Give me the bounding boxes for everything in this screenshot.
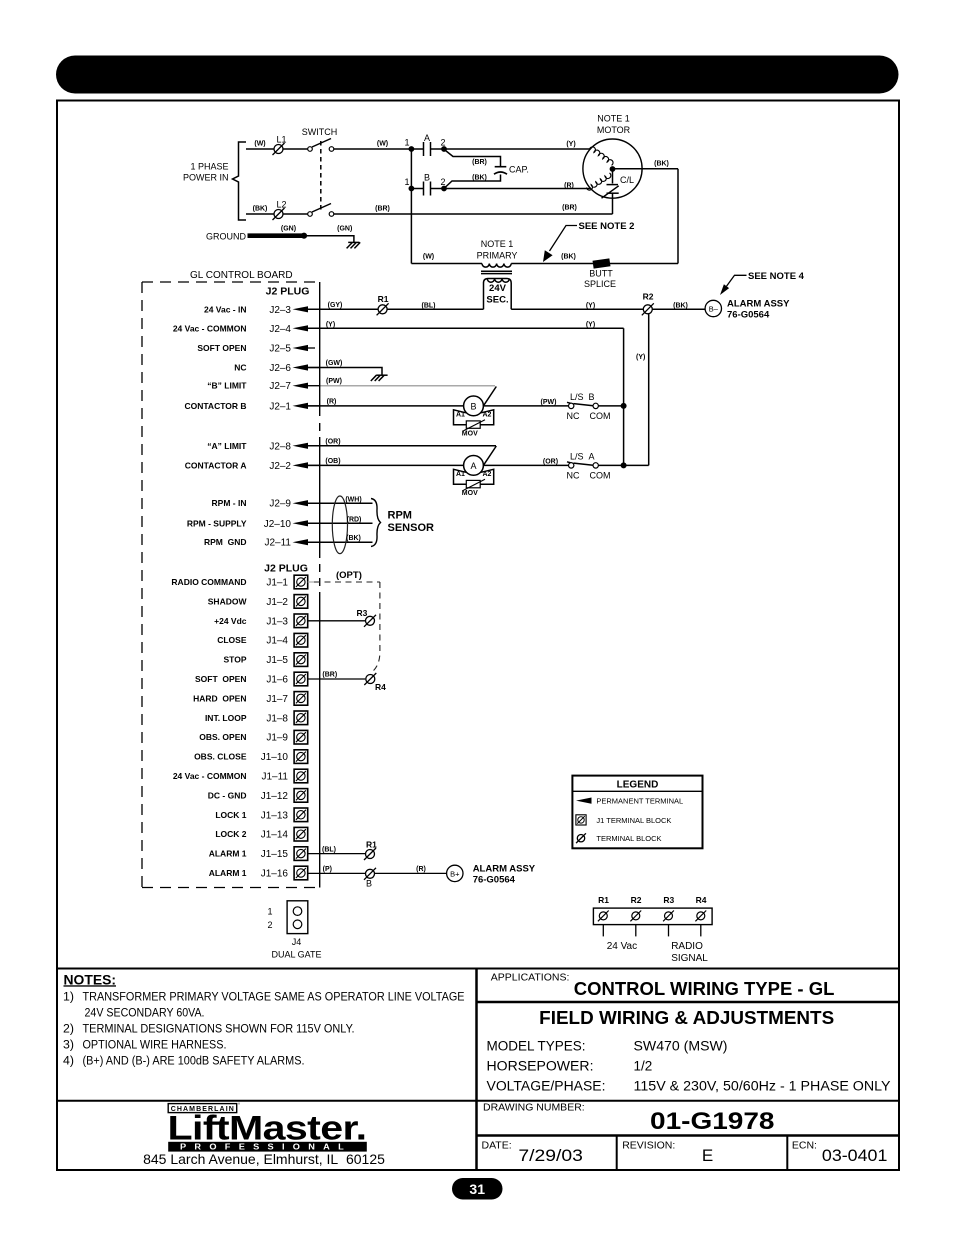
svg-text:R4: R4 <box>375 682 386 692</box>
svg-text:+24 Vdc: +24 Vdc <box>214 616 247 626</box>
RPM cable ellipse <box>332 496 347 554</box>
motor center node <box>610 166 616 172</box>
wire J2-7 PW gray <box>308 385 495 387</box>
svg-text:TERMINAL DESIGNATIONS SHOWN FO: TERMINAL DESIGNATIONS SHOWN FOR 115V ONL… <box>83 1021 355 1035</box>
outer page frame <box>57 101 899 1171</box>
svg-text:VOLTAGE/PHASE:: VOLTAGE/PHASE: <box>487 1078 606 1093</box>
svg-text:J2–5: J2–5 <box>269 344 291 355</box>
svg-text:J1–2: J1–2 <box>266 597 288 608</box>
svg-text:(BL): (BL) <box>322 846 336 853</box>
svg-text:R1: R1 <box>366 840 377 850</box>
svg-text:POWER IN: POWER IN <box>183 173 229 183</box>
wire J2-3 to R1 <box>304 308 378 310</box>
terminal R2 top <box>642 303 654 315</box>
svg-text:A: A <box>470 461 476 471</box>
svg-text:R4: R4 <box>696 895 707 905</box>
svg-text:BUTT: BUTT <box>589 269 613 279</box>
strip terminal R2 <box>630 911 641 922</box>
ground symbol hatches <box>348 241 359 243</box>
svg-text:(OB): (OB) <box>325 458 340 465</box>
svg-text:INT. LOOP: INT. LOOP <box>205 713 247 723</box>
svg-text:A2: A2 <box>483 411 492 418</box>
svg-text:J2–7: J2–7 <box>269 381 291 392</box>
svg-text:(Y): (Y) <box>586 303 595 310</box>
capacitor CAP top plate <box>495 166 507 168</box>
leader see note 4 <box>727 275 747 286</box>
svg-text:PERMANENT TERMINAL: PERMANENT TERMINAL <box>596 796 683 805</box>
line above DATE row <box>477 1134 900 1137</box>
wire Y vertical to limit rows <box>623 328 625 465</box>
wire R1 to transformer <box>387 308 483 310</box>
svg-text:L/S A: L/S A <box>570 452 595 462</box>
J4 pin 2 circle <box>293 920 302 929</box>
alarm assy B- circle <box>705 300 721 316</box>
wire W bottom run to primary and butt splice <box>411 263 482 265</box>
ground symbol J2-6 <box>376 374 387 376</box>
wire L/S B COM to junction <box>598 405 623 407</box>
strip lead R4 <box>700 925 702 937</box>
wire: frame line top of notes box <box>57 968 899 970</box>
contactor B actuator diagonal <box>483 387 496 407</box>
svg-text:TERMINAL BLOCK: TERMINAL BLOCK <box>596 834 661 843</box>
svg-text:(OPT): (OPT) <box>336 570 362 581</box>
svg-text:(BR): (BR) <box>322 672 337 679</box>
wire ground thin lead <box>304 236 354 243</box>
wire Y node2A to motor <box>444 148 590 150</box>
svg-text:24 Vac - COMMON: 24 Vac - COMMON <box>173 771 247 781</box>
svg-text:(BK): (BK) <box>346 535 361 542</box>
svg-text:1: 1 <box>404 138 409 148</box>
svg-text:J1–6: J1–6 <box>266 675 288 686</box>
centrifugal switch C/L stem <box>612 171 614 184</box>
wire BR switch to motor corner <box>334 213 613 215</box>
svg-text:J2–10: J2–10 <box>264 519 292 530</box>
svg-text:(BR): (BR) <box>375 206 390 213</box>
svg-text:(B+) AND (B-) ARE 100dB SAFETY: (B+) AND (B-) ARE 100dB SAFETY ALARMS. <box>83 1053 305 1067</box>
wire L1 row from bracket <box>246 148 274 150</box>
MOV B rect <box>466 421 480 428</box>
wire J2-9 <box>304 502 373 504</box>
svg-text:LEGEND: LEGEND <box>617 780 659 791</box>
svg-text:J1–9: J1–9 <box>266 733 288 744</box>
svg-text:01-G1978: 01-G1978 <box>650 1108 775 1135</box>
svg-text:(OR): (OR) <box>325 438 340 445</box>
wire switch to node 1 <box>334 148 409 150</box>
wire J1-3 to R3 <box>308 620 366 622</box>
svg-text:J1–15: J1–15 <box>261 849 289 860</box>
motor BK output wire <box>613 168 679 170</box>
svg-text:DC - GND: DC - GND <box>208 790 247 800</box>
svg-text:LOCK 1: LOCK 1 <box>215 810 246 820</box>
wire node1 column vertical <box>410 149 412 264</box>
svg-text:“A” LIMIT: “A” LIMIT <box>207 441 247 451</box>
wire contactor A to L/S A <box>483 464 568 466</box>
svg-text:SW470 (MSW): SW470 (MSW) <box>634 1039 728 1054</box>
svg-text:03-0401: 03-0401 <box>822 1146 888 1165</box>
node 2 contact A <box>441 146 447 152</box>
svg-text:HARD OPEN: HARD OPEN <box>193 693 246 703</box>
svg-text:2): 2) <box>63 1021 74 1035</box>
optional harness dashed vertical <box>373 582 380 672</box>
svg-text:J2–9: J2–9 <box>269 499 291 510</box>
contact B plates <box>423 182 425 196</box>
terminal L1 <box>273 143 285 155</box>
legend J1 terminal symbol <box>576 815 586 825</box>
svg-text:(Y): (Y) <box>326 321 335 328</box>
svg-text:J1–7: J1–7 <box>266 694 288 705</box>
svg-text:ALARM 1: ALARM 1 <box>209 849 247 859</box>
wire J1-15 to R1 <box>308 853 366 855</box>
svg-text:115V & 230V, 50/60Hz - 1 PHASE: 115V & 230V, 50/60Hz - 1 PHASE ONLY <box>634 1078 891 1093</box>
svg-text:(BK): (BK) <box>654 161 669 168</box>
svg-text:2: 2 <box>440 138 445 148</box>
svg-text:LOCK 2: LOCK 2 <box>215 829 246 839</box>
legend box <box>572 776 702 849</box>
svg-text:(R): (R) <box>416 866 426 873</box>
svg-text:2: 2 <box>440 177 445 187</box>
svg-text:24 Vac - COMMON: 24 Vac - COMMON <box>173 323 247 333</box>
svg-text:OBS. CLOSE: OBS. CLOSE <box>194 752 247 762</box>
svg-text:RPM: RPM <box>388 510 412 522</box>
svg-text:J2–3: J2–3 <box>269 305 291 316</box>
node 2 contact B <box>441 186 447 192</box>
svg-text:R1: R1 <box>598 895 609 905</box>
strip lead R3 <box>668 925 670 937</box>
svg-text:J2–11: J2–11 <box>264 538 291 549</box>
transformer core <box>481 270 512 272</box>
svg-text:31: 31 <box>469 1181 485 1197</box>
svg-text:MOTOR: MOTOR <box>597 125 631 135</box>
MOV A rect <box>466 480 480 487</box>
svg-text:(GW): (GW) <box>326 360 343 367</box>
svg-text:MODEL TYPES:: MODEL TYPES: <box>487 1039 586 1054</box>
svg-text:A: A <box>424 133 430 143</box>
svg-text:(RD): (RD) <box>347 516 362 523</box>
svg-text:24V SECONDARY 60VA.: 24V SECONDARY 60VA. <box>85 1005 205 1019</box>
svg-text:(BR): (BR) <box>562 205 577 212</box>
svg-text:1 PHASE: 1 PHASE <box>190 162 228 172</box>
svg-text:STOP: STOP <box>224 655 247 665</box>
svg-text:NOTE 1: NOTE 1 <box>597 114 630 124</box>
node 1 contact B <box>409 186 415 192</box>
svg-text:LiftMaster.: LiftMaster. <box>168 1109 367 1147</box>
centrifugal switch slash <box>602 186 619 198</box>
svg-text:NOTES:: NOTES: <box>64 972 117 987</box>
svg-text:(PW): (PW) <box>541 399 557 406</box>
svg-text:R2: R2 <box>643 291 654 301</box>
svg-text:J1–5: J1–5 <box>266 655 288 666</box>
svg-text:J1–11: J1–11 <box>261 772 288 783</box>
optional harness dashed run <box>314 581 380 583</box>
svg-text:OBS. OPEN: OBS. OPEN <box>199 732 246 742</box>
svg-text:A2: A2 <box>483 471 492 478</box>
svg-text:(BK): (BK) <box>561 254 576 261</box>
wire J2-2 to contactor A <box>304 464 464 466</box>
svg-text:OPTIONAL WIRE HARNESS.: OPTIONAL WIRE HARNESS. <box>83 1037 227 1051</box>
svg-text:PRIMARY: PRIMARY <box>477 251 518 261</box>
strip terminal R1 <box>598 911 609 922</box>
L/S A COM contact <box>593 463 598 468</box>
svg-text:24 Vac: 24 Vac <box>607 941 637 952</box>
svg-text:NOTE 1: NOTE 1 <box>481 239 514 249</box>
svg-text:NC: NC <box>234 363 246 373</box>
terminal B <box>364 868 376 880</box>
svg-text:4): 4) <box>63 1053 74 1067</box>
svg-text:L1: L1 <box>276 135 286 145</box>
legend permanent terminal arrow <box>576 798 592 804</box>
svg-text:(BK): (BK) <box>673 303 688 310</box>
svg-text:J1–12: J1–12 <box>261 791 289 802</box>
svg-text:J2–2: J2–2 <box>269 461 291 472</box>
svg-text:FIELD WIRING & ADJUSTMENTS: FIELD WIRING & ADJUSTMENTS <box>539 1008 834 1028</box>
wire node1B to plate <box>411 188 423 190</box>
L/S B NC contact <box>569 403 574 408</box>
arrowhead see note 4 <box>720 284 729 295</box>
svg-text:COM: COM <box>590 411 611 421</box>
strip lead R2 <box>635 925 637 937</box>
wire L1 to switch <box>283 148 308 150</box>
wire plate to node2B <box>431 188 445 190</box>
wire J2-6 to ground <box>304 368 382 375</box>
contact A plates <box>423 142 425 156</box>
svg-text:APPLICATIONS:: APPLICATIONS: <box>491 971 570 983</box>
wire J2-1 to contactor B <box>304 405 464 407</box>
svg-text:CAP.: CAP. <box>509 165 529 175</box>
svg-text:(R): (R) <box>327 398 337 405</box>
arrowhead see note 2 <box>543 250 553 262</box>
svg-text:B: B <box>470 401 476 411</box>
svg-text:J1–14: J1–14 <box>261 830 289 841</box>
svg-text:GROUND: GROUND <box>206 232 246 242</box>
switch lower blade <box>312 204 331 213</box>
J4 pin 1 circle <box>293 907 302 916</box>
svg-text:J2–4: J2–4 <box>269 324 291 335</box>
svg-text:(R): (R) <box>564 182 574 189</box>
terminal R4 <box>364 673 376 685</box>
terminal L2 <box>273 208 285 220</box>
ground junction node <box>301 233 307 239</box>
svg-text:DUAL GATE: DUAL GATE <box>271 950 321 960</box>
motor winding lower <box>587 173 611 190</box>
svg-text:CONTROL WIRING TYPE - GL: CONTROL WIRING TYPE - GL <box>574 979 835 999</box>
svg-text:J1–13: J1–13 <box>261 810 289 821</box>
svg-text:76-G0564: 76-G0564 <box>473 875 516 886</box>
contactor B A1A2 frame <box>454 410 494 425</box>
svg-text:J1–4: J1–4 <box>266 636 288 647</box>
svg-text:ECN:: ECN: <box>792 1139 817 1151</box>
header black pill bar <box>56 56 899 94</box>
svg-text:SOFT OPEN: SOFT OPEN <box>195 674 246 684</box>
butt splice block <box>593 258 611 268</box>
junction dot Y at L/S B <box>621 403 627 409</box>
terminal R3 <box>364 615 376 627</box>
J2 plug connector line <box>319 282 321 888</box>
wire vertical motor bottom <box>612 193 614 214</box>
ground GND thick lead <box>248 233 305 238</box>
svg-text:“B” LIMIT: “B” LIMIT <box>207 381 247 391</box>
svg-text:L2: L2 <box>276 200 286 210</box>
svg-text:RPM - SUPPLY: RPM - SUPPLY <box>187 518 247 528</box>
wire J1-16 to terminal B <box>308 872 366 874</box>
svg-text:TRANSFORMER PRIMARY VOLTAGE SA: TRANSFORMER PRIMARY VOLTAGE SAME AS OPER… <box>83 990 465 1004</box>
svg-text:(W): (W) <box>423 254 434 261</box>
J4 dual gate box <box>287 901 308 934</box>
svg-text:B: B <box>424 173 430 183</box>
GL control board dashed outline left <box>141 282 143 888</box>
svg-text:SEE NOTE 4: SEE NOTE 4 <box>748 271 805 282</box>
strip lead R1 <box>602 925 604 937</box>
transformer secondary coil <box>487 279 509 283</box>
wire contactor B to L/S B <box>483 405 568 407</box>
junction dot Y at L/S A <box>621 462 627 468</box>
svg-text:SENSOR: SENSOR <box>388 522 435 534</box>
svg-text:HORSEPOWER:: HORSEPOWER: <box>487 1059 594 1074</box>
RPM brace <box>371 499 381 547</box>
svg-text:MOV: MOV <box>462 430 478 437</box>
svg-text:SPLICE: SPLICE <box>584 279 616 289</box>
L/S A NC contact <box>569 463 574 468</box>
wire J2-11 <box>304 541 373 543</box>
svg-text:ALARM 1: ALARM 1 <box>209 868 247 878</box>
svg-text:A1: A1 <box>456 411 465 418</box>
svg-text:(GN): (GN) <box>337 226 352 233</box>
svg-text:DRAWING NUMBER:: DRAWING NUMBER: <box>483 1102 585 1114</box>
svg-text:J4: J4 <box>292 937 302 947</box>
terminal R1 top <box>377 303 389 315</box>
svg-text:(GN): (GN) <box>281 226 296 233</box>
svg-text:C/L: C/L <box>620 175 634 185</box>
wire plate to node2A <box>431 148 445 150</box>
divider DATE/REVISION <box>616 1136 618 1171</box>
wire L2 row from bracket <box>246 213 274 215</box>
L/S A lever <box>567 462 574 464</box>
svg-text:SWITCH: SWITCH <box>302 127 338 137</box>
switch gang dashed link <box>320 141 322 210</box>
svg-text:NC: NC <box>567 471 580 481</box>
centrifugal switch bar 2 <box>607 192 619 194</box>
switch upper blade <box>312 139 331 148</box>
wire J2-8 OR run <box>304 445 496 447</box>
svg-text:CONTACTOR B: CONTACTOR B <box>184 401 246 411</box>
MOV A slash <box>464 479 486 490</box>
wire transformer to R2 <box>511 308 643 310</box>
strip terminal R3 <box>663 911 674 922</box>
wire primary to butt splice <box>511 263 678 265</box>
motor M circle <box>583 139 642 198</box>
professional black bar <box>168 1142 367 1152</box>
svg-text:SOFT OPEN: SOFT OPEN <box>197 343 246 353</box>
chamberlain logo box <box>168 1104 237 1113</box>
legend title line <box>572 790 702 792</box>
svg-text:2: 2 <box>267 920 272 930</box>
svg-text:1: 1 <box>267 907 272 917</box>
svg-text:(BK): (BK) <box>253 206 268 213</box>
svg-text:(Y): (Y) <box>566 141 575 148</box>
svg-text:24 Vac - IN: 24 Vac - IN <box>204 304 247 314</box>
GL control board dashed outline bottom <box>142 887 318 889</box>
transformer T1 primary coil <box>482 264 511 268</box>
svg-text:J1–16: J1–16 <box>261 869 289 880</box>
svg-text:J2–1: J2–1 <box>269 401 291 412</box>
alarm assy B+ circle <box>447 865 463 881</box>
svg-text:RADIO COMMAND: RADIO COMMAND <box>171 577 246 587</box>
svg-text:(BK): (BK) <box>472 174 487 181</box>
svg-text:1: 1 <box>404 177 409 187</box>
wire L2 to switch <box>283 213 308 215</box>
svg-text:J1 TERMINAL BLOCK: J1 TERMINAL BLOCK <box>596 816 671 825</box>
capacitor CAP bottom plate <box>494 172 507 174</box>
centrifugal switch bar 1 <box>607 184 619 186</box>
line under CONTROL WIRING TYPE <box>477 1001 900 1004</box>
svg-text:J2–8: J2–8 <box>269 441 291 452</box>
svg-text:ALARM ASSY: ALARM ASSY <box>727 299 790 310</box>
svg-text:NC: NC <box>567 411 580 421</box>
transformer secondary box <box>484 279 512 310</box>
svg-text:L/S B: L/S B <box>570 392 595 402</box>
wire cap upper branch <box>446 151 501 167</box>
svg-text:(GY): (GY) <box>328 302 343 309</box>
divider REVISION/ECN <box>786 1136 788 1171</box>
svg-text:SIGNAL: SIGNAL <box>671 953 708 964</box>
svg-text:J1–10: J1–10 <box>261 752 289 763</box>
svg-text:(P): (P) <box>323 866 332 873</box>
contactor B coil circle <box>464 396 484 416</box>
svg-text:(PW): (PW) <box>326 378 342 385</box>
svg-text:1): 1) <box>63 990 74 1004</box>
svg-text:R2: R2 <box>631 895 642 905</box>
wire J2-4 Y run <box>304 327 624 329</box>
svg-text:E: E <box>702 1146 713 1165</box>
svg-text:845 Larch Avenue, Elmhurst, IL: 845 Larch Avenue, Elmhurst, IL 60125 <box>143 1151 385 1167</box>
svg-text:(WH): (WH) <box>345 497 361 504</box>
svg-text:CONTACTOR A: CONTACTOR A <box>185 460 247 470</box>
svg-text:J1–3: J1–3 <box>266 616 288 627</box>
svg-text:(BR): (BR) <box>472 159 487 166</box>
svg-text:DATE:: DATE: <box>482 1139 512 1151</box>
svg-text:J2 PLUG: J2 PLUG <box>266 286 310 298</box>
contactor A coil circle <box>464 456 484 476</box>
svg-text:GL CONTROL BOARD: GL CONTROL BOARD <box>190 270 293 281</box>
svg-text:RADIO: RADIO <box>671 941 703 952</box>
svg-text:(W): (W) <box>254 141 265 148</box>
MOV B slash <box>464 420 486 431</box>
wire R2 vertical <box>648 309 650 465</box>
svg-text:B: B <box>366 879 372 889</box>
motor winding upper <box>590 147 614 165</box>
frame line above logo / drawing number row <box>57 1100 899 1102</box>
svg-text:1/2: 1/2 <box>634 1059 653 1074</box>
svg-text:J1–8: J1–8 <box>266 713 288 724</box>
terminal R1 lower <box>364 848 376 860</box>
svg-text:7/29/03: 7/29/03 <box>518 1146 583 1165</box>
svg-text:°: ° <box>238 1103 240 1109</box>
node 1 contact A <box>409 146 415 152</box>
svg-text:(Y): (Y) <box>636 354 645 361</box>
svg-text:B–: B– <box>709 305 719 314</box>
svg-text:J2–6: J2–6 <box>269 363 291 374</box>
strip terminal R4 <box>695 911 706 922</box>
svg-text:CLOSE: CLOSE <box>217 635 247 645</box>
wire L/S A COM to R2 vertical <box>598 464 648 466</box>
contactor A actuator diagonal <box>483 446 496 466</box>
svg-text:(Y): (Y) <box>586 321 595 328</box>
svg-text:REVISION:: REVISION: <box>622 1139 675 1151</box>
wire node1A to plate <box>411 148 423 150</box>
vertical divider notes vs applications <box>475 969 478 1171</box>
wire R node2B to motor <box>444 188 591 190</box>
wire cap lower branch <box>445 175 501 188</box>
wire J1-1 stub gray <box>308 581 314 583</box>
